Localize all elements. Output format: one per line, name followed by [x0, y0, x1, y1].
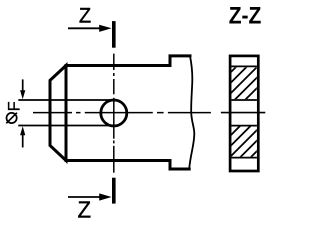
svg-text:Z: Z: [79, 4, 91, 28]
svg-text:Z-Z: Z-Z: [229, 4, 262, 30]
svg-text:Z: Z: [78, 197, 92, 220]
svg-text:F: F: [6, 101, 24, 111]
